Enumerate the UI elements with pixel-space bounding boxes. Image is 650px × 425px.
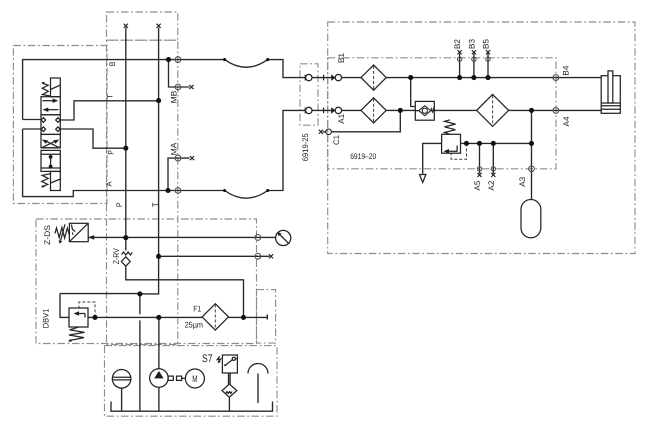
svg-text:6919–20: 6919–20 bbox=[350, 152, 376, 161]
svg-text:F1: F1 bbox=[193, 305, 201, 314]
svg-text:P: P bbox=[115, 203, 124, 208]
svg-text:B4: B4 bbox=[562, 65, 571, 75]
svg-text:A2: A2 bbox=[487, 180, 496, 190]
svg-text:25µm: 25µm bbox=[185, 321, 204, 330]
svg-text:B: B bbox=[108, 62, 117, 67]
svg-text:B5: B5 bbox=[482, 39, 491, 49]
svg-text:MB: MB bbox=[169, 91, 178, 104]
svg-text:A5: A5 bbox=[473, 180, 482, 190]
svg-text:6919-25: 6919-25 bbox=[301, 133, 310, 161]
svg-text:B3: B3 bbox=[468, 39, 477, 49]
svg-text:M: M bbox=[192, 374, 197, 385]
svg-text:C1: C1 bbox=[332, 135, 341, 145]
svg-text:T: T bbox=[105, 94, 114, 99]
svg-text:B1: B1 bbox=[337, 53, 346, 63]
svg-text:Z-DS: Z-DS bbox=[43, 224, 52, 245]
svg-text:S7: S7 bbox=[202, 353, 213, 365]
svg-text:A: A bbox=[104, 181, 113, 187]
svg-text:A4: A4 bbox=[562, 116, 571, 126]
svg-text:P: P bbox=[107, 150, 116, 155]
svg-text:A3: A3 bbox=[518, 176, 527, 186]
svg-text:Z-RV: Z-RV bbox=[112, 248, 121, 265]
svg-text:DBV1: DBV1 bbox=[41, 308, 50, 328]
svg-text:T: T bbox=[151, 203, 160, 208]
svg-text:B2: B2 bbox=[453, 39, 462, 49]
svg-text:MA: MA bbox=[169, 142, 178, 155]
svg-text:A1: A1 bbox=[337, 113, 346, 123]
